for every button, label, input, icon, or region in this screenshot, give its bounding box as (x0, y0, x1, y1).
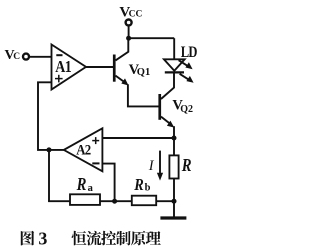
svg-text:b: b (145, 183, 151, 194)
svg-text:Q1: Q1 (137, 67, 150, 78)
svg-text:3: 3 (38, 229, 47, 248)
svg-text:A2: A2 (76, 143, 91, 159)
svg-text:C: C (13, 52, 20, 62)
svg-text:R: R (181, 154, 192, 175)
svg-text:a: a (88, 183, 94, 194)
svg-text:R: R (133, 176, 143, 195)
svg-text:LD: LD (181, 44, 197, 62)
svg-text:R: R (76, 173, 87, 194)
svg-text:A1: A1 (55, 58, 72, 77)
svg-text:Q2: Q2 (180, 104, 193, 115)
svg-text:CC: CC (129, 9, 143, 19)
